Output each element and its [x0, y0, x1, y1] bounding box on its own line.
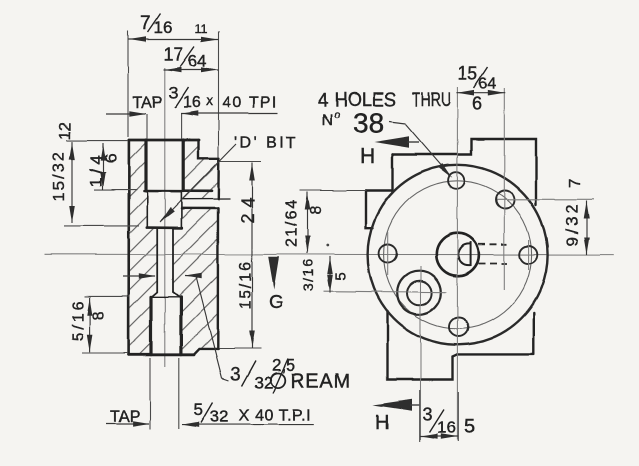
right edge upper [217, 158, 220, 199]
bottom edge [129, 353, 194, 356]
extension lines [64, 31, 458, 442]
hole bottom [449, 318, 468, 337]
svg-text:15/16: 15/16 [238, 259, 255, 309]
svg-text:TAP: TAP [110, 409, 140, 426]
D bit shape [458, 244, 471, 265]
svg-text:5: 5 [464, 416, 475, 438]
svg-text:H: H [360, 145, 375, 168]
svg-text:8: 8 [308, 206, 325, 215]
horizontal centerline (both views) [44, 253, 614, 255]
svg-text:THRU: THRU [412, 90, 451, 111]
svg-text:X 40 T.P.I: X 40 T.P.I [239, 408, 311, 425]
reamed bore walls [156, 228, 158, 293]
svg-text:17: 17 [164, 45, 184, 65]
svg-text:3: 3 [169, 84, 178, 103]
dashed hidden lines [479, 243, 508, 245]
svg-text:24: 24 [238, 191, 258, 223]
svg-text:3: 3 [231, 364, 241, 384]
svg-text:4: 4 [318, 90, 329, 111]
flares [152, 293, 158, 298]
bottom tap threads [149, 297, 152, 354]
right edge lower [217, 208, 220, 349]
side hole [181, 198, 229, 200]
bolt circle [384, 181, 532, 329]
svg-text:x: x [206, 93, 213, 109]
bottom notch [194, 349, 218, 355]
dimension lines with arrows [72, 40, 587, 437]
counterbored hole inner [407, 281, 432, 306]
svg-text:32: 32 [210, 407, 229, 426]
svg-text:7: 7 [567, 178, 584, 187]
tap thread right [182, 140, 185, 191]
svg-text:3: 3 [423, 405, 433, 425]
hole right [520, 246, 538, 264]
svg-text:6: 6 [472, 94, 482, 114]
svg-text:32: 32 [254, 373, 273, 392]
svg-text:21/64: 21/64 [284, 198, 301, 247]
svg-text:G: G [269, 292, 284, 313]
svg-text:16: 16 [437, 418, 456, 437]
svg-text:12: 12 [57, 122, 74, 140]
svg-text:40 TPI: 40 TPI [223, 95, 279, 112]
diameter symbol [271, 373, 286, 388]
tap thread left [144, 140, 147, 191]
svg-text:o: o [334, 109, 340, 121]
right view outline [366, 139, 537, 380]
hatched cross-section body [129, 140, 219, 355]
left view outline [129, 140, 230, 355]
arrowheads [129, 37, 146, 43]
svg-text:5: 5 [194, 400, 203, 419]
horizontal texts [110, 14, 496, 439]
svg-text:6: 6 [102, 154, 121, 163]
svg-text:15/32: 15/32 [51, 150, 68, 201]
svg-text:TAP: TAP [133, 95, 163, 112]
outer boss circle [368, 165, 548, 345]
vertical centerline left view [164, 68, 166, 367]
top-right step [199, 140, 220, 158]
fraction slashes [148, 14, 488, 433]
hole left [379, 245, 397, 263]
svg-text:H: H [375, 412, 389, 434]
counterbored hole outer [397, 271, 441, 315]
svg-text:11: 11 [195, 22, 208, 36]
svg-text:64: 64 [188, 52, 207, 71]
svg-text:8: 8 [91, 311, 108, 320]
svg-text:9/32: 9/32 [563, 201, 582, 246]
section arrows [268, 257, 279, 289]
left edge [127, 140, 130, 355]
hole upper-right [496, 191, 514, 209]
svg-text:16: 16 [154, 18, 173, 37]
pocket bottom [147, 226, 182, 229]
hole top (No.38) [448, 172, 465, 189]
top edge [129, 139, 199, 142]
svg-text:5: 5 [333, 272, 350, 280]
svg-text:REAM: REAM [291, 371, 352, 393]
svg-text:5/16: 5/16 [70, 298, 87, 341]
tap bottom [144, 190, 212, 193]
svg-text:64: 64 [479, 76, 497, 93]
rotated texts [51, 122, 584, 341]
center D-bit bore [436, 233, 479, 276]
svg-text:N: N [322, 112, 334, 129]
centerlines right view [324, 87, 594, 440]
svg-text:7: 7 [140, 14, 151, 35]
svg-text:3/16: 3/16 [300, 258, 316, 291]
svg-text:38: 38 [353, 108, 384, 139]
svg-text:'D' BIT: 'D' BIT [234, 135, 299, 152]
svg-text:16: 16 [183, 95, 201, 112]
svg-text:15: 15 [458, 64, 478, 84]
pocket walls [146, 191, 148, 228]
circles [368, 165, 548, 345]
small dot [326, 244, 329, 247]
